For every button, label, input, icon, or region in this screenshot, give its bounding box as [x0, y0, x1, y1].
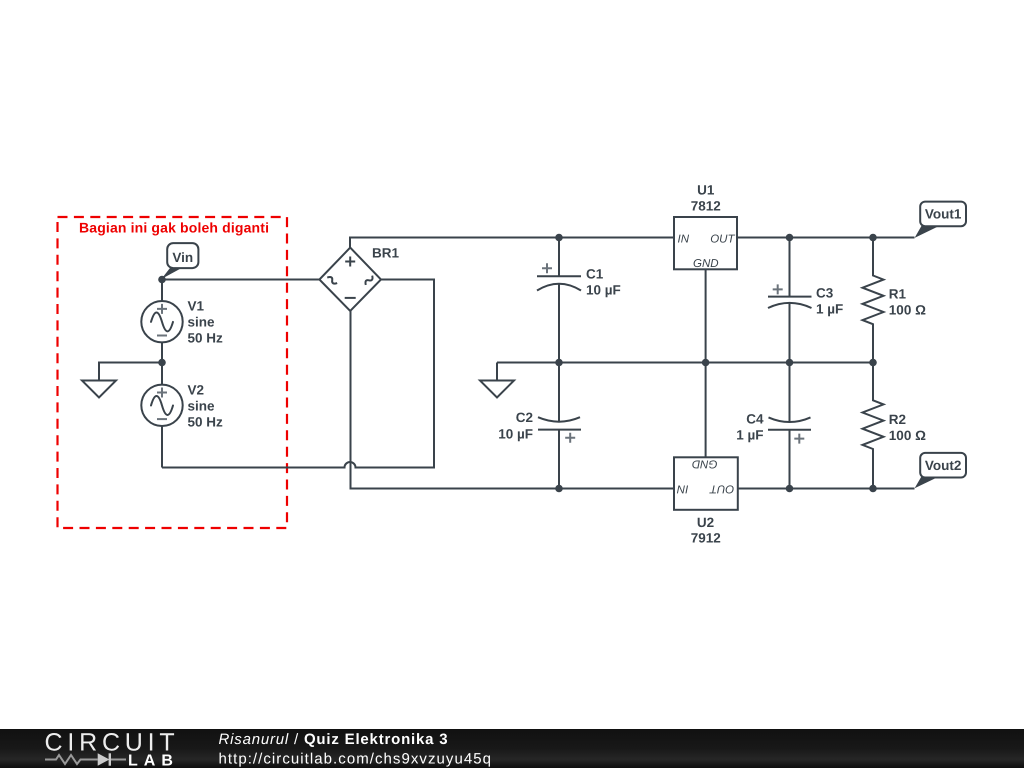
- svg-text:Risanurul / Quiz Elektronika 3: Risanurul / Quiz Elektronika 3: [219, 731, 449, 748]
- svg-text:10 µF: 10 µF: [498, 427, 533, 442]
- wire BR1 top to upper rail: [350, 238, 674, 248]
- svg-text:U1: U1: [697, 183, 715, 198]
- capacitor C3: [768, 238, 843, 363]
- svg-text:7912: 7912: [691, 531, 721, 546]
- capacitor C1: [537, 238, 621, 363]
- svg-text:10 µF: 10 µF: [586, 283, 621, 298]
- logo diode: [98, 753, 110, 765]
- node C2 bottom: [555, 485, 563, 493]
- node between V1 and V2: [158, 359, 166, 367]
- red keep-out box: [58, 217, 288, 528]
- capacitor C2: [498, 363, 581, 489]
- logo wire-resistor-diode: [45, 755, 126, 764]
- svg-text:Vout1: Vout1: [925, 207, 962, 222]
- wire Vin node to BR1 left vertex: [162, 279, 320, 281]
- capacitor C4: [736, 363, 811, 489]
- wire V1 to V2: [161, 343, 163, 386]
- node C3 top: [786, 234, 794, 242]
- svg-text:100 Ω: 100 Ω: [889, 428, 926, 443]
- node C3 bottom: [786, 359, 794, 367]
- node between V1 and Vin: [158, 276, 166, 284]
- svg-text:1 µF: 1 µF: [816, 302, 843, 317]
- svg-text:BR1: BR1: [372, 246, 399, 261]
- node R1 bottom: [869, 359, 877, 367]
- ground symbol left: [82, 381, 116, 398]
- svg-text:100 Ω: 100 Ω: [889, 303, 926, 318]
- svg-text:GND: GND: [692, 458, 718, 470]
- svg-text:50 Hz: 50 Hz: [188, 415, 224, 430]
- wire AC return with hop to BR1 right vertex: [162, 280, 434, 468]
- regulator U2: [674, 457, 738, 545]
- bridge rectifier BR1: [319, 246, 399, 312]
- svg-text:R2: R2: [889, 412, 906, 427]
- regulator U1: [674, 183, 737, 271]
- node R1 top: [869, 234, 877, 242]
- wire V1 top lead: [161, 280, 163, 302]
- node C4 bottom: [786, 485, 794, 493]
- svg-text:http://circuitlab.com/chs9xvzu: http://circuitlab.com/chs9xvzuyu45q: [219, 751, 493, 768]
- resistor R2: [863, 363, 927, 489]
- svg-text:LAB: LAB: [128, 753, 179, 768]
- node C1 top: [555, 234, 563, 242]
- svg-text:V2: V2: [188, 383, 205, 398]
- wire ground stub left: [99, 363, 162, 381]
- node C1 bottom: [555, 359, 563, 367]
- svg-text:C1: C1: [586, 267, 604, 282]
- wire U1 GND to U2 GND: [705, 269, 707, 458]
- resistor R1: [863, 238, 927, 363]
- voltage source V1: [141, 299, 223, 346]
- svg-text:R1: R1: [889, 287, 907, 302]
- svg-text:C2: C2: [516, 410, 533, 425]
- svg-text:C4: C4: [746, 412, 764, 427]
- svg-text:Bagian ini gak boleh diganti: Bagian ini gak boleh diganti: [79, 220, 269, 236]
- svg-text:sine: sine: [188, 399, 216, 414]
- svg-text:V1: V1: [188, 299, 205, 314]
- Vout1 net flag: [915, 202, 966, 238]
- svg-text:OUT: OUT: [709, 483, 734, 495]
- wire V2 bottom lead: [161, 426, 163, 468]
- Vin net flag: [161, 243, 198, 279]
- svg-text:Vout2: Vout2: [925, 458, 962, 473]
- wire lower rail right of U2: [738, 488, 915, 490]
- svg-text:IN: IN: [678, 233, 690, 245]
- voltage source V2: [141, 383, 223, 430]
- wire ground rail: [497, 362, 873, 364]
- svg-text:7812: 7812: [691, 199, 721, 214]
- node R2 bottom: [869, 485, 877, 493]
- svg-text:OUT: OUT: [710, 233, 735, 245]
- Vout2 net flag: [915, 453, 966, 488]
- node U1 GND at rail: [702, 359, 710, 367]
- svg-text:1 µF: 1 µF: [736, 428, 763, 443]
- svg-text:Vin: Vin: [172, 250, 193, 265]
- svg-text:50 Hz: 50 Hz: [188, 331, 224, 346]
- svg-text:IN: IN: [676, 483, 688, 495]
- wire upper rail right of U1: [737, 237, 915, 239]
- svg-text:sine: sine: [188, 315, 216, 330]
- svg-text:C3: C3: [816, 286, 834, 301]
- wire ground stub middle: [496, 363, 498, 381]
- svg-text:U2: U2: [697, 515, 714, 530]
- svg-text:GND: GND: [693, 258, 719, 270]
- wire BR1 bottom to lower rail: [351, 311, 675, 489]
- ground symbol middle: [480, 381, 514, 398]
